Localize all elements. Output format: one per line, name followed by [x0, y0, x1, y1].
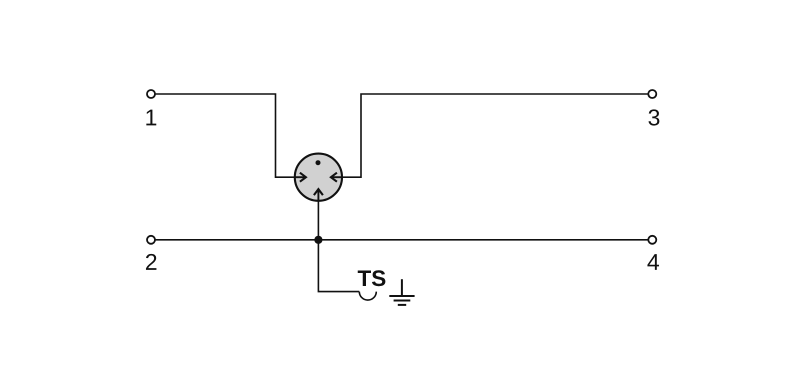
- TS disconnect contact arc: [359, 292, 376, 301]
- label 4: [647, 254, 659, 270]
- arrester bottom electrode arrow: [314, 189, 323, 201]
- arrester left electrode arrow: [295, 173, 306, 182]
- terminal 3: [648, 90, 656, 98]
- label TS: [358, 271, 371, 286]
- arrester gas-filled indicator dot: [316, 160, 321, 165]
- terminal 2: [147, 236, 155, 244]
- label 1: [146, 110, 156, 126]
- terminal 4: [648, 236, 656, 244]
- gas discharge arrester U1 body: [295, 154, 342, 201]
- wire bottom rail terminal 2 to terminal 4: [155, 239, 648, 241]
- label 2: [146, 254, 156, 270]
- wire from terminal 1 to arrester left electrode: [155, 94, 297, 177]
- ground symbol: [389, 279, 414, 305]
- terminal 1: [147, 90, 155, 98]
- label 3: [648, 109, 659, 125]
- wire from terminal 3 to arrester right electrode: [340, 94, 648, 177]
- wire arrester center electrode down through junction to TS contact: [318, 200, 359, 292]
- arrester right electrode arrow: [331, 173, 342, 182]
- junction node between arrester lead and bottom rail: [314, 236, 322, 244]
